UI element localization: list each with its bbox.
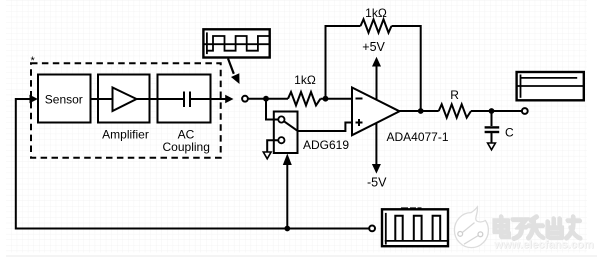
capacitor symbol inside — [158, 98, 185, 100]
ground (switch) — [263, 152, 271, 159]
switch U2 ADG619 — [274, 112, 298, 154]
svg-text:R: R — [450, 88, 459, 102]
input terminal circle — [242, 96, 248, 102]
svg-text:1kΩ: 1kΩ — [294, 73, 316, 87]
svg-text:-5V: -5V — [367, 176, 387, 190]
node C junction — [489, 108, 495, 114]
wire to node A — [248, 98, 266, 100]
wire node A to resistor R1 — [266, 98, 288, 100]
svg-text:Amplifier: Amplifier — [102, 128, 149, 142]
wire AC coupling to output arrow — [211, 98, 228, 100]
dashed enclosure box — [31, 63, 221, 158]
scope display icon right — [517, 72, 584, 100]
output node junction — [418, 108, 424, 114]
wire resistor to node B — [321, 98, 353, 100]
svg-text:C: C — [505, 125, 514, 139]
node A junction — [263, 96, 269, 102]
feedback wire — [326, 26, 361, 99]
bottom terminal circle — [369, 226, 375, 232]
wire op-amp output to resistor R — [400, 110, 439, 112]
input arrow into sensor — [30, 95, 38, 104]
wire sensor to amplifier — [91, 98, 99, 100]
watermark text 电子发烧友 (drawn strokes) — [495, 217, 581, 239]
svg-text:Coupling: Coupling — [163, 140, 210, 154]
svg-text:ADA4077-1: ADA4077-1 — [386, 130, 448, 144]
wire node A down to switch — [266, 99, 278, 120]
svg-text:www.elecfans.com: www.elecfans.com — [493, 239, 594, 251]
op-amp U1 — [352, 88, 400, 136]
node B junction (inverting input) — [323, 96, 329, 102]
svg-text:ADG619: ADG619 — [303, 138, 349, 152]
svg-text:1kΩ: 1kΩ — [365, 6, 387, 20]
amplifier box — [98, 75, 150, 123]
control arrow from bottom wire to switch — [286, 165, 288, 229]
output terminal circle — [522, 108, 528, 114]
sensor box — [38, 75, 91, 123]
switch ground wire — [267, 140, 278, 151]
wire left input loop — [16, 99, 369, 229]
waveform source icon top — [203, 29, 269, 57]
capacitor C — [491, 111, 493, 126]
-5V supply arrow — [375, 123, 377, 165]
amplifier triangle — [98, 98, 113, 100]
switch output wire to op-amp + input — [298, 123, 353, 132]
svg-text:*: * — [31, 55, 36, 67]
resistor R1 1k — [288, 92, 321, 105]
ground (capacitor) — [488, 143, 496, 150]
AC coupling box — [158, 75, 211, 123]
arrow from source icon to input node — [228, 59, 234, 74]
svg-text:Sensor: Sensor — [45, 92, 83, 106]
wire resistor R to node C — [471, 110, 522, 112]
svg-text:+5V: +5V — [362, 40, 385, 54]
+5V supply arrow — [376, 66, 378, 101]
watermark logo — [454, 207, 488, 248]
resistor R2 1k feedback — [361, 19, 392, 32]
wire amplifier to AC coupling — [150, 98, 158, 100]
feedback wire right — [392, 26, 421, 111]
resistor R — [439, 104, 471, 117]
junction on bottom wire — [284, 226, 290, 232]
waveform icon bottom — [382, 207, 448, 246]
